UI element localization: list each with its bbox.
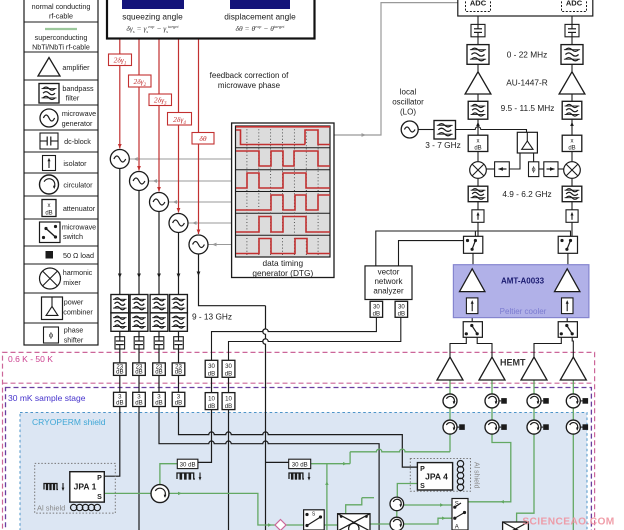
svg-text:SCIENCEAO.COM: SCIENCEAO.COM [522, 517, 614, 528]
svg-text:amplifier: amplifier [62, 63, 90, 72]
svg-text:dB: dB [155, 400, 162, 407]
svg-text:dB: dB [373, 311, 380, 318]
svg-text:dB: dB [225, 403, 232, 410]
svg-text:dB: dB [568, 146, 575, 152]
svg-text:x: x [48, 203, 51, 209]
svg-text:30: 30 [208, 363, 215, 370]
svg-text:displacement angle: displacement angle [224, 12, 296, 22]
svg-text:normal conducting: normal conducting [32, 2, 91, 11]
svg-text:0 - 22 MHz: 0 - 22 MHz [507, 49, 548, 59]
svg-text:dB: dB [175, 369, 182, 376]
svg-text:δθ: δθ [199, 134, 206, 143]
svg-text:data timing: data timing [263, 258, 304, 268]
svg-text:30: 30 [225, 363, 232, 370]
svg-text:AU-1447-R: AU-1447-R [506, 77, 548, 87]
svg-text:dB: dB [45, 211, 52, 217]
svg-text:0.6 K - 50 K: 0.6 K - 50 K [8, 354, 53, 364]
svg-text:Al shield: Al shield [473, 462, 480, 489]
svg-text:network: network [374, 277, 403, 286]
svg-text:mixer: mixer [63, 278, 81, 287]
svg-text:power: power [64, 298, 84, 307]
svg-text:isolator: isolator [63, 159, 87, 168]
svg-text:(LO): (LO) [400, 108, 416, 117]
svg-text:local: local [400, 88, 417, 97]
svg-text:rf-cable: rf-cable [49, 12, 73, 21]
svg-text:30: 30 [373, 304, 380, 311]
svg-text:3 - 7 GHz: 3 - 7 GHz [425, 140, 461, 150]
svg-text:30 dB: 30 dB [292, 462, 308, 469]
svg-text:JPA 4: JPA 4 [425, 472, 448, 482]
svg-text:oscillator: oscillator [392, 98, 424, 107]
svg-text:shifter: shifter [64, 336, 84, 345]
svg-text:dB: dB [175, 400, 182, 407]
svg-text:A: A [455, 525, 459, 530]
svg-text:attenuator: attenuator [63, 204, 96, 213]
svg-text:circulator: circulator [63, 181, 93, 190]
svg-text:ϕ: ϕ [49, 331, 53, 340]
svg-text:30 dB: 30 dB [180, 462, 196, 469]
svg-text:dB: dB [135, 400, 142, 407]
svg-text:S: S [97, 494, 102, 501]
svg-text:dB: dB [155, 369, 162, 376]
svg-text:microwave: microwave [62, 223, 96, 232]
svg-text:x: x [571, 139, 574, 145]
svg-text:ADC: ADC [566, 0, 583, 8]
svg-text:Al shield: Al shield [37, 504, 65, 513]
svg-text:microwave phase: microwave phase [218, 81, 281, 90]
svg-text:ϕ: ϕ [532, 167, 536, 174]
svg-text:dB: dB [116, 369, 123, 376]
svg-text:10: 10 [225, 395, 232, 402]
svg-text:CRYOPERM shield: CRYOPERM shield [32, 417, 106, 427]
svg-text:ADC: ADC [470, 0, 487, 8]
svg-text:4.9 - 6.2 GHz: 4.9 - 6.2 GHz [502, 189, 551, 199]
svg-text:HEMT: HEMT [500, 358, 526, 368]
svg-text:analyzer: analyzer [373, 287, 404, 296]
svg-text:microwave: microwave [62, 109, 96, 118]
svg-text:generator (DTG): generator (DTG) [252, 268, 313, 278]
svg-text:x: x [477, 139, 480, 145]
svg-text:9 - 13 GHz: 9 - 13 GHz [192, 312, 232, 322]
svg-text:NbTi/NbTi rf-cable: NbTi/NbTi rf-cable [32, 43, 90, 52]
svg-text:dB: dB [116, 400, 123, 407]
svg-text:50 Ω load: 50 Ω load [63, 251, 94, 260]
svg-text:P: P [420, 466, 425, 473]
svg-text:dB: dB [474, 146, 481, 152]
svg-text:harmonic: harmonic [63, 268, 93, 277]
svg-text:vector: vector [378, 268, 400, 277]
svg-text:switch: switch [63, 232, 83, 241]
svg-text:feedback correction of: feedback correction of [210, 71, 289, 80]
svg-text:squeezing angle: squeezing angle [122, 12, 183, 22]
svg-text:JPA 1: JPA 1 [74, 482, 97, 492]
svg-text:bandpass: bandpass [62, 84, 94, 93]
svg-text:10: 10 [208, 395, 215, 402]
svg-text:Peltier cooler: Peltier cooler [500, 307, 547, 316]
svg-text:dB: dB [208, 371, 215, 378]
svg-text:dc-block: dc-block [64, 137, 91, 146]
svg-text:30: 30 [398, 304, 405, 311]
svg-text:combiner: combiner [63, 308, 93, 317]
svg-text:dB: dB [135, 369, 142, 376]
svg-text:30 mK sample stage: 30 mK sample stage [8, 393, 86, 403]
svg-text:9.5 - 11.5 MHz: 9.5 - 11.5 MHz [501, 103, 555, 113]
svg-text:dB: dB [225, 371, 232, 378]
svg-text:superconducting: superconducting [35, 33, 88, 42]
svg-text:P: P [97, 475, 102, 482]
svg-text:dB: dB [398, 311, 405, 318]
svg-text:AMT-A0033: AMT-A0033 [501, 277, 545, 286]
svg-text:dB: dB [208, 403, 215, 410]
svg-text:filter: filter [66, 94, 80, 103]
svg-text:generator: generator [62, 119, 93, 128]
svg-text:S: S [420, 483, 425, 490]
svg-text:phase: phase [64, 326, 84, 335]
